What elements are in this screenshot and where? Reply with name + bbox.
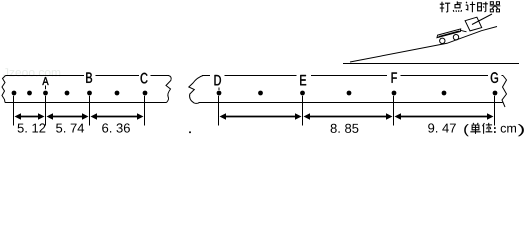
node label A (42, 77, 48, 85)
tick under label A (45, 86, 47, 90)
dimension tick at B (89, 96, 91, 126)
tape 2 torn left edge (189, 76, 203, 104)
value 9.47 (428, 123, 456, 132)
unit right paren (518, 124, 524, 136)
tape 2 dots (217, 91, 222, 96)
value 5.74 (56, 124, 84, 133)
hanzi 单 (470, 123, 480, 134)
arrow 6.36 (96, 116, 137, 118)
arrow 9.47 (400, 116, 487, 118)
ground line (343, 63, 519, 65)
cart wheel 2 (453, 35, 458, 40)
dimension tick at A (45, 96, 47, 126)
unit left paren (464, 124, 469, 136)
tape 1 top edge (6, 75, 85, 77)
stray ink speck (189, 131, 191, 133)
node label B (86, 73, 92, 83)
node label F (392, 73, 397, 83)
dimension tick at G (494, 96, 496, 126)
tick under label D (218, 88, 220, 91)
arrow 5.74 (52, 116, 82, 118)
node label D (215, 75, 221, 85)
dimension tick at E (302, 96, 304, 126)
hanzi 计 (466, 2, 476, 13)
cart deck line (439, 31, 460, 37)
arrow 5.12 (20, 116, 38, 118)
unit cm (501, 126, 516, 133)
dimension tick at C (144, 96, 146, 126)
hanzi 时 (478, 2, 488, 12)
node label E (300, 75, 306, 85)
fullwidth colon (494, 127, 496, 133)
cart to timer tape (460, 30, 466, 32)
value 6.36 (102, 123, 130, 132)
value 8.85 (331, 124, 359, 133)
leader line from label to timer (472, 14, 492, 25)
tape 1 torn left edge (2, 76, 6, 103)
tape 1 torn right edge (166, 76, 171, 103)
cart body (437, 29, 461, 38)
timer box U1 (465, 17, 482, 31)
hanzi 打 (440, 2, 450, 13)
cart wheel 1 (440, 38, 445, 43)
dimension tick at D (218, 96, 220, 126)
tape 2 torn right edge (502, 76, 507, 108)
dimension tick at first dot (13, 96, 15, 126)
hanzi 点 (453, 1, 462, 12)
dimension tick at F (393, 96, 395, 126)
hanzi 位 (483, 123, 493, 134)
svg-text:Jzeoo.com: Jzeoo.com (3, 66, 61, 80)
incline surface (350, 27, 497, 63)
value 5.12 (18, 123, 46, 132)
tape 1 bottom edge (5, 102, 167, 104)
hanzi 器 (490, 2, 501, 12)
tape 1 dots (12, 91, 498, 134)
arrow 8.85 (309, 116, 386, 118)
tape 2 bottom edge (199, 102, 503, 104)
double arrows (20, 116, 487, 118)
node label C (141, 73, 148, 84)
tape 2 top edge (202, 75, 210, 77)
node label G (491, 72, 498, 83)
arrow D-E (225, 116, 295, 118)
